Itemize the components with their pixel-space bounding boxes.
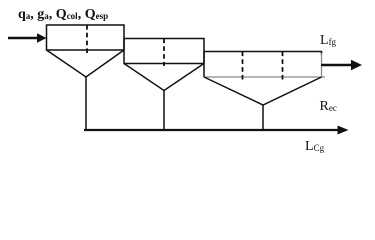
tank T3 basin top and left walls [204,52,322,78]
tank T1 basin [47,25,125,50]
tank T3 baffle 1 (dashed) [242,52,244,80]
tank T1 baffle (dashed) [86,25,88,53]
tank T1 sludge drop pipe [85,77,87,130]
tank T3 right wall [321,53,323,77]
tank T2 hopper [124,64,204,91]
effluent arrow L_fg [321,60,362,70]
tank T2 baffle (dashed) [163,39,165,67]
tank T2 basin [124,39,204,64]
tank T1 hopper [47,50,125,77]
tank T3 baffle 2 (dashed) [282,52,284,80]
svg-text:qa, ga, Qcol, Qesp: qa, ga, Qcol, Qesp [18,7,108,22]
tank T3 hopper [204,77,322,105]
inlet arrow (influent) [8,33,47,43]
tank T3 bottom edge [204,76,325,78]
tank T3 sludge drop pipe [262,105,264,130]
sludge collection line with arrow [84,126,349,135]
tank T2 sludge drop pipe [163,91,165,131]
